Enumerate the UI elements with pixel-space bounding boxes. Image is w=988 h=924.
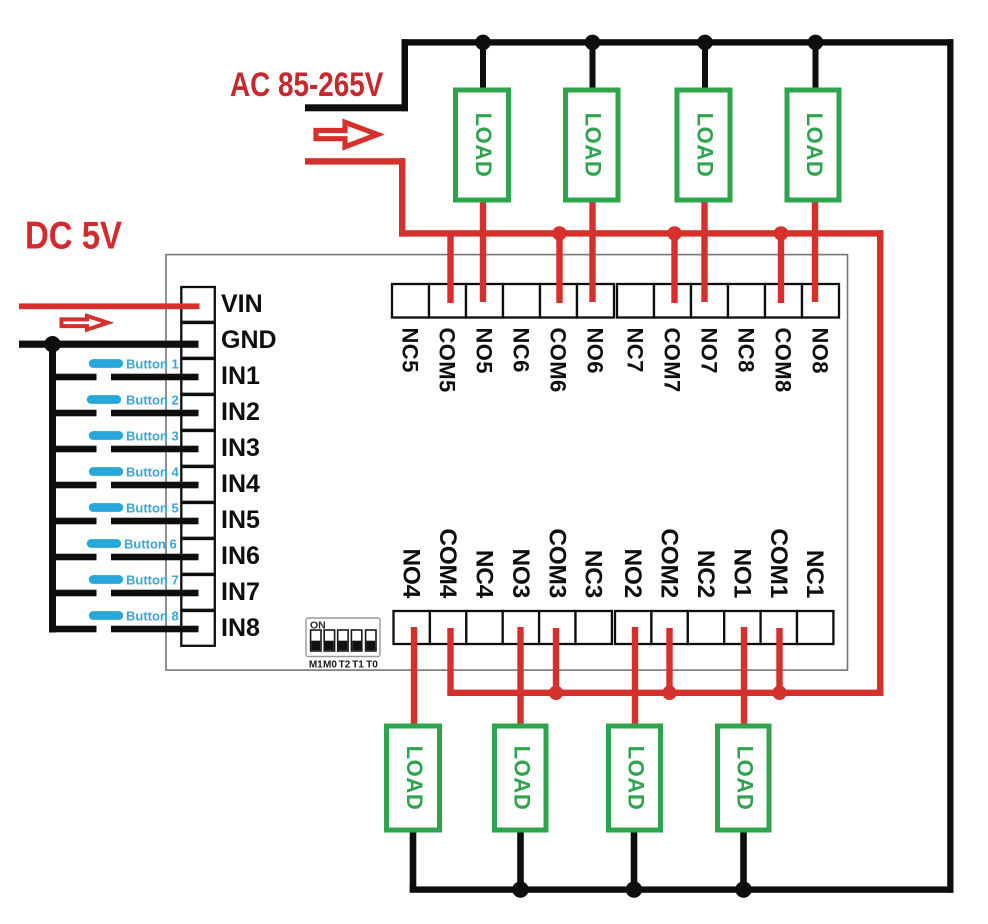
junction dot top bus 2: [585, 35, 601, 51]
terminal NO1: [724, 611, 760, 644]
svg-text:AC 85-265V: AC 85-265V: [230, 65, 384, 103]
svg-text:LOAD: LOAD: [402, 746, 427, 811]
terminal NC1: [797, 611, 833, 644]
wire button4 left segment: [52, 482, 97, 489]
wire COM top red bus: [399, 230, 883, 236]
junction dot red bottom 3: [772, 686, 786, 700]
junction dot red bottom 1: [549, 686, 563, 700]
DIP switch pole 4: [351, 630, 361, 651]
wire GND lead: [19, 341, 199, 348]
terminal IN1: [181, 359, 215, 394]
wire button8 right segment: [111, 626, 199, 633]
wire LOAD8 bottom lead: [740, 829, 747, 892]
arrow AC input: [316, 122, 378, 147]
wire COM2 stub: [666, 628, 672, 693]
relay module board outline: [166, 255, 848, 670]
svg-text:LOAD: LOAD: [693, 113, 718, 178]
svg-text:IN7: IN7: [221, 578, 260, 606]
wire AC neutral lead vertical: [402, 39, 409, 111]
wire button7 right segment: [111, 590, 199, 597]
junction dot top bus 1: [475, 35, 491, 51]
wire button5 right segment: [111, 518, 199, 525]
wire COM8 stub: [778, 234, 784, 303]
wire button6 left segment: [52, 554, 97, 561]
terminal COM2: [651, 611, 687, 644]
svg-text:COM2: COM2: [656, 528, 683, 598]
terminal COM4: [430, 611, 466, 644]
load L6: [495, 726, 547, 830]
svg-text:NO7: NO7: [697, 328, 722, 374]
terminal NC6: [503, 284, 540, 318]
terminal COM7: [654, 284, 691, 318]
wire COM7 stub: [671, 234, 677, 303]
svg-text:VIN: VIN: [221, 290, 263, 318]
wire button8 left segment: [52, 626, 97, 633]
wire AC live lead horizontal: [305, 158, 406, 164]
wire COM bottom red bus: [447, 690, 883, 696]
terminal IN6: [181, 539, 215, 574]
terminal NO3: [503, 611, 539, 644]
terminal NO8: [802, 284, 839, 318]
svg-text:IN6: IN6: [221, 542, 260, 570]
load L8: [718, 726, 770, 830]
pushbutton S6: [87, 537, 177, 552]
svg-text:DC 5V: DC 5V: [25, 213, 122, 257]
pushbutton S1: [89, 357, 179, 372]
load L7: [609, 726, 661, 830]
wire LOAD2 top stub: [590, 45, 596, 91]
wire LOAD7 bottom lead: [631, 829, 638, 892]
svg-text:NO2: NO2: [619, 549, 646, 598]
terminal NO2: [615, 611, 651, 644]
wire LOAD3 to NO7: [701, 198, 707, 302]
svg-text:NC5: NC5: [398, 328, 423, 373]
svg-text:LOAD: LOAD: [581, 113, 606, 178]
pushbutton S2: [87, 393, 179, 408]
terminal IN2: [181, 395, 215, 430]
wire COM3 stub: [553, 628, 559, 693]
wire COM6 stub: [556, 234, 562, 303]
wire NO3 to LOAD6: [517, 627, 523, 727]
wire button6 right segment: [111, 554, 199, 561]
junction dot top bus 3: [697, 35, 713, 51]
terminal IN7: [181, 575, 215, 610]
pushbutton S7: [89, 573, 179, 588]
DIP switch pole 5: [366, 630, 376, 651]
svg-text:COM6: COM6: [546, 328, 571, 393]
svg-text:Button 2: Button 2: [126, 393, 179, 408]
wire NO2 to LOAD7: [632, 627, 638, 727]
svg-text:GND: GND: [221, 326, 277, 354]
svg-text:IN2: IN2: [221, 398, 260, 426]
svg-text:NO1: NO1: [728, 549, 755, 598]
wire LOAD5 bottom lead: [410, 829, 417, 892]
svg-text:COM3: COM3: [543, 528, 570, 598]
wire right red vertical: [877, 230, 883, 696]
wire button3 right segment: [111, 446, 199, 453]
terminal NC2: [688, 611, 724, 644]
svg-text:LOAD: LOAD: [733, 746, 758, 811]
wire button common bus vertical: [49, 344, 56, 633]
svg-text:COM4: COM4: [434, 528, 461, 598]
svg-text:NO4: NO4: [398, 549, 425, 599]
terminal NC5: [392, 284, 429, 318]
junction dot red bottom 2: [662, 686, 676, 700]
svg-text:COM8: COM8: [771, 328, 796, 393]
DIP switch pole 1: [311, 630, 321, 651]
DIP switch pole 3: [338, 630, 348, 651]
DIP switch pole 2: [324, 630, 334, 651]
wire LOAD6 bottom lead: [517, 829, 524, 892]
terminal NC8: [728, 284, 765, 318]
wire button1 left segment: [52, 374, 97, 381]
terminal IN3: [181, 431, 215, 466]
svg-text:NC3: NC3: [580, 550, 607, 598]
svg-text:IN3: IN3: [221, 434, 260, 462]
wire COM4 stub: [447, 628, 453, 693]
terminal NO6: [577, 284, 614, 318]
svg-text:LOAD: LOAD: [624, 746, 649, 811]
pushbutton S4: [89, 465, 180, 480]
svg-text:LOAD: LOAD: [510, 746, 535, 811]
terminal IN8: [181, 611, 215, 646]
svg-text:M0: M0: [323, 660, 337, 671]
junction dot bottom bus 2: [626, 881, 642, 897]
wire NO4 to LOAD5: [411, 627, 417, 727]
wire AC neutral lead horizontal: [305, 104, 408, 111]
svg-text:Button 5: Button 5: [126, 501, 179, 516]
svg-text:NO6: NO6: [583, 328, 608, 374]
junction dot GND: [44, 336, 60, 352]
terminal COM6: [540, 284, 577, 318]
load L1: [456, 90, 509, 200]
wire button4 right segment: [111, 482, 199, 489]
svg-text:Button 1: Button 1: [126, 357, 179, 372]
terminal GND: [181, 323, 215, 358]
wire right vertical black return: [947, 39, 953, 893]
load L5: [387, 726, 440, 830]
terminal NC4: [466, 611, 502, 644]
junction dot red top 1: [552, 226, 566, 240]
pushbutton S8: [89, 609, 179, 624]
svg-text:NO5: NO5: [472, 328, 497, 374]
svg-text:IN4: IN4: [221, 470, 260, 498]
arrow DC input: [62, 316, 108, 330]
svg-text:COM5: COM5: [435, 328, 460, 393]
svg-text:Button 4: Button 4: [126, 465, 179, 480]
svg-text:T1: T1: [352, 660, 364, 671]
terminal COM3: [539, 611, 575, 644]
wire LOAD4 to NO8: [812, 198, 818, 302]
svg-text:NC2: NC2: [692, 550, 719, 598]
terminal NC3: [576, 611, 612, 644]
wire NO1 to LOAD8: [741, 627, 747, 727]
svg-text:Button 6: Button 6: [124, 537, 177, 552]
svg-text:NC1: NC1: [801, 550, 828, 598]
svg-text:M1: M1: [309, 660, 323, 671]
svg-text:NO3: NO3: [507, 549, 534, 598]
load L4: [787, 90, 839, 200]
terminal NO5: [466, 284, 503, 318]
wire button2 left segment: [52, 410, 97, 417]
wire AC live lead vertical: [399, 158, 405, 236]
terminal VIN: [181, 287, 215, 322]
svg-text:T2: T2: [339, 660, 351, 671]
terminal NC7: [617, 284, 654, 318]
svg-text:NC8: NC8: [734, 328, 759, 373]
svg-text:LOAD: LOAD: [471, 113, 496, 178]
pushbutton S3: [89, 429, 179, 444]
svg-text:IN8: IN8: [221, 614, 260, 642]
wire VIN red lead: [19, 303, 200, 309]
wire LOAD2 to NO6: [589, 198, 595, 302]
wire bottom black bus: [410, 886, 954, 892]
wire button3 left segment: [52, 446, 97, 453]
svg-text:Button 8: Button 8: [126, 609, 179, 624]
terminal NO7: [691, 284, 728, 318]
wire LOAD1 to NO5: [480, 198, 486, 302]
svg-text:COM7: COM7: [660, 328, 685, 393]
junction dot red top 3: [774, 226, 788, 240]
wire button7 left segment: [52, 590, 97, 597]
svg-text:Button 7: Button 7: [126, 573, 179, 588]
load L3: [677, 90, 730, 200]
junction dot bottom bus 3: [735, 881, 751, 897]
svg-text:LOAD: LOAD: [802, 113, 827, 178]
wire button1 right segment: [111, 374, 199, 381]
wire LOAD1 top stub: [480, 45, 486, 91]
terminal IN4: [181, 467, 215, 502]
wire AC neutral top bus: [402, 39, 954, 45]
terminal COM1: [761, 611, 797, 644]
svg-text:NC4: NC4: [471, 550, 498, 599]
wire COM5 stub: [447, 234, 453, 303]
junction dot top bus 4: [808, 35, 824, 51]
wire button5 left segment: [52, 518, 97, 525]
junction dot red top 2: [667, 226, 681, 240]
svg-text:COM1: COM1: [765, 528, 792, 598]
svg-text:Button 3: Button 3: [126, 429, 179, 444]
wire COM1 stub: [776, 628, 782, 693]
pushbutton S5: [89, 501, 179, 516]
svg-text:IN5: IN5: [221, 506, 260, 534]
load L2: [566, 90, 619, 200]
terminal COM8: [765, 284, 802, 318]
svg-text:NC6: NC6: [509, 328, 534, 373]
wire LOAD4 top stub: [813, 45, 819, 91]
svg-text:T0: T0: [366, 660, 378, 671]
svg-text:IN1: IN1: [221, 362, 260, 390]
terminal IN5: [181, 503, 215, 538]
terminal COM5: [429, 284, 466, 318]
terminal NO4: [394, 611, 430, 644]
svg-text:NC7: NC7: [623, 328, 648, 373]
wire button2 right segment: [111, 410, 199, 417]
junction dot bottom bus 1: [512, 881, 528, 897]
DIP switch SW1 body: [306, 618, 380, 657]
wire LOAD3 top stub: [702, 45, 708, 91]
svg-text:NO8: NO8: [808, 328, 833, 374]
